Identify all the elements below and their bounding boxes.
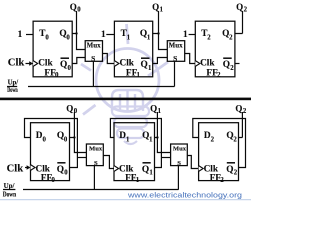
- flip-flop FF0 box (top): [33, 21, 72, 77]
- svg-text:2: 2: [234, 169, 238, 176]
- svg-text:Q: Q: [226, 165, 233, 175]
- svg-text:Q: Q: [142, 165, 149, 175]
- svg-text:2: 2: [217, 71, 221, 79]
- svg-text:Q: Q: [141, 60, 148, 70]
- svg-text:Mux: Mux: [173, 146, 187, 153]
- svg-text:Clk: Clk: [38, 59, 53, 69]
- wire mux M1 select: [92, 61, 94, 86]
- junction Q0 top: [75, 32, 77, 34]
- svg-text:Clk: Clk: [8, 57, 25, 68]
- flip-flop FF2 box (top): [195, 21, 235, 77]
- flip-flop FF1 box (bottom): [114, 123, 155, 181]
- svg-text:Up/: Up/: [8, 79, 19, 86]
- svg-text:1: 1: [147, 34, 151, 41]
- wire 1-input T2: [189, 34, 195, 36]
- svg-text:1: 1: [101, 30, 106, 40]
- svg-text:0: 0: [77, 6, 81, 13]
- svg-text:2: 2: [230, 65, 234, 72]
- separator line: [0, 98, 251, 101]
- svg-text:2: 2: [233, 137, 237, 144]
- svg-text:1: 1: [127, 34, 131, 41]
- svg-text:1: 1: [149, 169, 153, 176]
- svg-text:1: 1: [126, 137, 130, 144]
- flip-flop FF2 box (bottom): [199, 123, 239, 181]
- svg-text:Mux: Mux: [87, 42, 102, 50]
- svg-text:0: 0: [51, 176, 55, 184]
- svg-text:S: S: [177, 160, 181, 167]
- wire Q1bar to mux B: [153, 58, 168, 64]
- wire mux M2 output to FF2 clock: [185, 54, 196, 64]
- wire Q1 output to label and mux A: [153, 11, 168, 50]
- wire mux M4 select: [177, 166, 179, 190]
- wire mux M3 output to bottom FF1 clock: [103, 156, 114, 169]
- wire Up/Down bus bottom: [3, 189, 178, 191]
- clock wedge top FF0: [33, 61, 38, 67]
- svg-text:Q: Q: [152, 2, 159, 12]
- wire D1 feedback from Q1bar: [110, 119, 161, 168]
- svg-text:0: 0: [74, 108, 78, 115]
- junction Q1 top: [157, 32, 159, 34]
- svg-text:Q: Q: [70, 2, 77, 12]
- svg-text:0: 0: [55, 71, 59, 79]
- wire mux M1 output to FF1 clock: [103, 54, 115, 64]
- svg-text:0: 0: [45, 34, 49, 41]
- mux M3 box (bottom): [86, 144, 103, 166]
- svg-text:1: 1: [136, 176, 140, 184]
- svg-text:Clk: Clk: [7, 163, 24, 174]
- svg-text:0: 0: [43, 137, 47, 144]
- wire Q1 bottom to label and mux A: [155, 112, 171, 153]
- arrowhead Clk bottom FF0: [27, 165, 31, 170]
- wire Q2 output to label: [235, 11, 243, 34]
- wire Q0 output to label and mux A: [72, 11, 85, 50]
- svg-text:Q: Q: [66, 104, 73, 114]
- wire Clk input bottom: [25, 167, 28, 169]
- svg-text:2: 2: [244, 6, 248, 13]
- svg-text:2: 2: [207, 34, 211, 41]
- svg-text:Clk: Clk: [120, 59, 135, 69]
- svg-text:Q: Q: [60, 60, 67, 70]
- wire Q0bar tap to mux B bottom: [77, 157, 86, 159]
- svg-text:1: 1: [137, 71, 141, 79]
- wire Q0 bottom to label and mux A: [70, 112, 87, 153]
- svg-text:0: 0: [64, 169, 68, 176]
- mux M2 box (top): [167, 41, 184, 62]
- wire 1-input T0: [26, 34, 33, 36]
- svg-text:0: 0: [64, 137, 68, 144]
- svg-text:2: 2: [211, 137, 215, 144]
- mux M1 box (top): [85, 41, 102, 62]
- wire D0 feedback from Q0bar: [25, 119, 78, 168]
- wire mux M2 select: [174, 61, 176, 86]
- svg-text:Q: Q: [235, 104, 242, 114]
- flip-flop FF1 box (top): [114, 21, 152, 77]
- wire 1-input T1: [106, 34, 114, 36]
- svg-text:Down: Down: [3, 191, 17, 199]
- wire Q2 bottom to label: [239, 112, 243, 138]
- svg-text:Q: Q: [150, 104, 157, 114]
- svg-text:0: 0: [66, 34, 70, 41]
- wire Clk input top: [26, 63, 31, 65]
- mux M4 box (bottom): [171, 144, 188, 166]
- clock wedge top FF2: [195, 61, 200, 67]
- svg-text:Q: Q: [236, 2, 243, 12]
- watermark bulb: [81, 24, 168, 144]
- clock wedge bottom FF2: [199, 166, 204, 172]
- arrowhead Clk top FF0: [29, 61, 33, 66]
- svg-text:Q: Q: [223, 60, 230, 70]
- svg-text:1: 1: [148, 65, 152, 72]
- svg-text:1: 1: [18, 30, 23, 40]
- clock wedge bottom FF0: [31, 165, 36, 171]
- wire Q1bar tap to mux B bottom: [161, 157, 170, 159]
- svg-text:0: 0: [68, 65, 72, 72]
- bottom rule: [0, 199, 251, 200]
- svg-text:www.electricaltechnology.org: www.electricaltechnology.org: [127, 190, 242, 199]
- wire Q2bar stub: [235, 63, 240, 65]
- svg-text:1: 1: [160, 6, 164, 13]
- svg-text:Mux: Mux: [89, 146, 103, 153]
- svg-text:1: 1: [183, 30, 188, 40]
- junction Q1 bottom: [156, 136, 158, 138]
- svg-text:S: S: [91, 54, 95, 63]
- svg-text:Down: Down: [7, 87, 18, 94]
- svg-text:S: S: [173, 54, 177, 63]
- svg-text:2: 2: [220, 176, 224, 184]
- wire mux M4 output to bottom FF2 clock: [187, 156, 198, 169]
- flip-flop FF0 box (bottom): [31, 123, 70, 181]
- wire D2 feedback from Q2bar: [193, 119, 246, 168]
- wire Up/Down bus top: [7, 86, 175, 88]
- svg-text:1: 1: [158, 108, 162, 115]
- svg-text:Mux: Mux: [169, 42, 184, 50]
- clock wedge bottom FF1: [114, 166, 119, 172]
- wire Q0bar to mux B: [72, 58, 85, 64]
- svg-text:S: S: [94, 160, 98, 167]
- svg-text:Up/: Up/: [4, 182, 16, 190]
- wire mux M3 select: [93, 166, 95, 190]
- junction Q0 bottom: [73, 136, 75, 138]
- svg-text:1: 1: [149, 137, 153, 144]
- clock wedge top FF1: [114, 61, 119, 67]
- svg-text:Q: Q: [57, 165, 64, 175]
- svg-text:Clk: Clk: [200, 59, 215, 69]
- svg-text:2: 2: [229, 34, 233, 41]
- svg-text:2: 2: [243, 108, 247, 115]
